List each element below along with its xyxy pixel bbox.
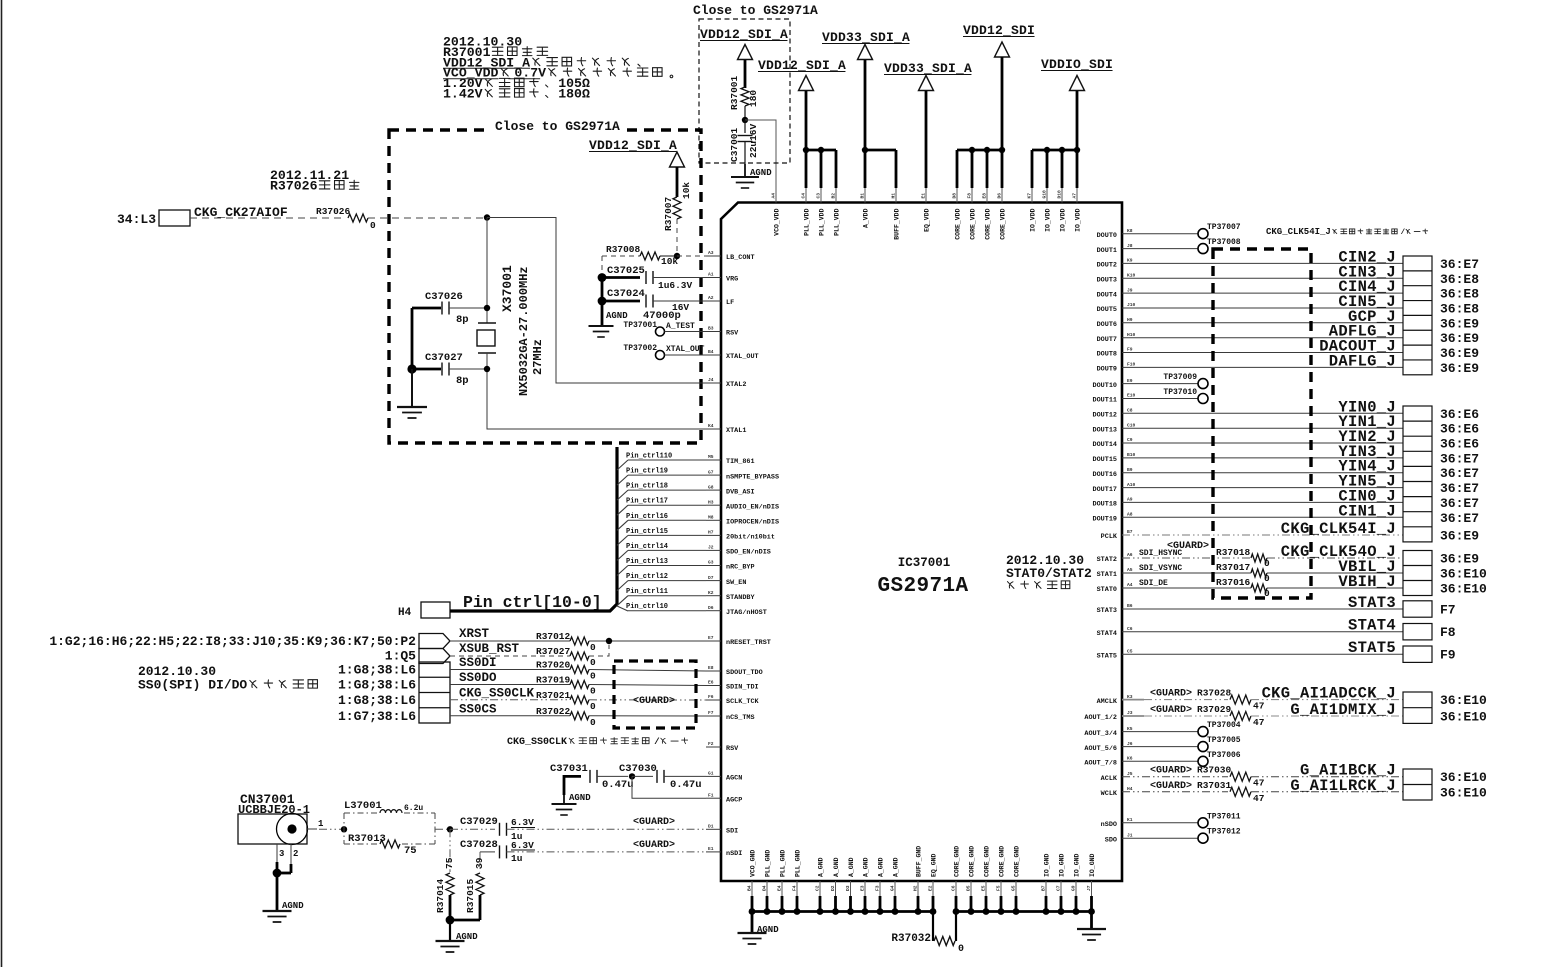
svg-text:C37031: C37031 xyxy=(550,763,588,775)
svg-text:STAT4: STAT4 xyxy=(1348,617,1396,635)
wire xtal top to XTAL2 xyxy=(487,218,706,384)
svg-text:DVB_ASI: DVB_ASI xyxy=(726,488,755,496)
svg-text:R37012: R37012 xyxy=(536,631,571,642)
svg-text:DOUT0: DOUT0 xyxy=(1097,232,1117,240)
page connector box audio i2s xyxy=(1403,769,1432,800)
svg-text:K10: K10 xyxy=(1127,273,1136,279)
svg-text:Close to GS2971A: Close to GS2971A xyxy=(693,3,818,18)
svg-text:CKG_CLK54I_J: CKG_CLK54I_J xyxy=(1266,227,1331,237)
svg-text:10k: 10k xyxy=(681,182,692,199)
svg-text:8p: 8p xyxy=(456,314,469,326)
svg-text:R37020: R37020 xyxy=(536,660,571,671)
wire xtal bottom to XTAL1 xyxy=(487,353,706,429)
svg-text:SS0DI: SS0DI xyxy=(459,656,497,670)
svg-text:nSMPTE_BYPASS: nSMPTE_BYPASS xyxy=(726,473,779,481)
svg-text:J8: J8 xyxy=(1127,243,1133,249)
svg-text:36:E10: 36:E10 xyxy=(1440,770,1487,785)
svg-text:<GUARD>: <GUARD> xyxy=(1150,705,1192,716)
svg-text:34:L3: 34:L3 xyxy=(117,212,156,227)
svg-text:36:E6: 36:E6 xyxy=(1440,407,1479,422)
svg-text:STAT1: STAT1 xyxy=(1097,571,1117,579)
wire CKG_SS0CLK xyxy=(450,699,570,701)
svg-text:B9: B9 xyxy=(1127,467,1133,473)
wire R37030 -> G_AI1BCK_J xyxy=(1251,776,1403,778)
capacitor C37027 8p xyxy=(407,364,416,373)
svg-text:36:E9: 36:E9 xyxy=(1440,346,1479,361)
svg-text:DOUT2: DOUT2 xyxy=(1097,262,1117,270)
test point TP37011 xyxy=(1122,822,1198,824)
resistor R37007 10k xyxy=(673,197,681,219)
svg-text:M5: M5 xyxy=(708,454,714,460)
svg-text:LF: LF xyxy=(726,299,734,307)
svg-text:SDI_VSYNC: SDI_VSYNC xyxy=(1139,564,1182,573)
svg-text:36:E10: 36:E10 xyxy=(1440,567,1487,582)
svg-text:0: 0 xyxy=(1264,558,1270,569)
svg-text:SDI_DE: SDI_DE xyxy=(1139,579,1168,588)
svg-text:DAFLG_J: DAFLG_J xyxy=(1329,352,1396,370)
svg-text:36:E10: 36:E10 xyxy=(1440,710,1487,725)
svg-text:C37027: C37027 xyxy=(425,352,463,364)
svg-text:A1: A1 xyxy=(708,272,714,278)
svg-text:DOUT10: DOUT10 xyxy=(1093,382,1117,390)
svg-text:DOUT7: DOUT7 xyxy=(1097,336,1117,344)
resistor R37022 0ohm xyxy=(570,712,589,720)
dashed box Close to GS2971A (crystal circuit) xyxy=(389,130,701,443)
wire Pin_ctrl16 xyxy=(617,520,628,530)
svg-text:C37030: C37030 xyxy=(619,763,657,775)
svg-text:PLL_GND: PLL_GND xyxy=(780,850,787,877)
test point TP37006 xyxy=(1122,760,1198,762)
wire nSDI guard xyxy=(507,851,707,853)
wire R37028 -> CKG_AI1ADCCK_J xyxy=(1251,699,1403,701)
svg-text:CKG_SS0CLK: CKG_SS0CLK xyxy=(507,737,567,748)
svg-text:BUFF_GND: BUFF_GND xyxy=(916,846,923,877)
test point TP37001 A_TEST xyxy=(656,327,665,336)
wire DOUT5 -> CIN5_J xyxy=(1122,307,1403,309)
wire WCLK (guard) xyxy=(1122,791,1228,793)
svg-text:J9: J9 xyxy=(1127,287,1133,293)
wire DOUT8 -> DACOUT_J xyxy=(1122,352,1403,354)
ground symbol at right of ground bus xyxy=(1090,912,1093,930)
svg-text:TIM_861: TIM_861 xyxy=(726,458,755,466)
svg-text:EQ_GND: EQ_GND xyxy=(931,853,938,877)
svg-text:B10: B10 xyxy=(1127,452,1136,458)
svg-text:PLL_VDD: PLL_VDD xyxy=(819,208,826,235)
page connector box YIN0..CKG_CLK54I xyxy=(1403,406,1432,542)
svg-text:XSUB_RST: XSUB_RST xyxy=(459,642,520,656)
svg-text:R37019: R37019 xyxy=(536,675,571,686)
svg-text:CORE_VDD: CORE_VDD xyxy=(970,208,977,239)
svg-text:R37026: R37026 xyxy=(316,206,351,217)
svg-text:SDIN_TDI: SDIN_TDI xyxy=(726,684,759,692)
svg-text:CKG_SS0CLK: CKG_SS0CLK xyxy=(459,686,535,700)
wire DOUT12 -> YIN0_J xyxy=(1122,412,1403,414)
svg-text:R37014: R37014 xyxy=(435,878,446,913)
svg-text:VDD12_SDI_A: VDD12_SDI_A xyxy=(758,58,846,73)
svg-text:<GUARD>: <GUARD> xyxy=(1150,766,1192,777)
svg-text:VDD12_SDI: VDD12_SDI xyxy=(963,23,1035,38)
analog ground bus wire xyxy=(752,910,933,913)
wire Pin_ctrl10 xyxy=(617,606,628,611)
svg-text:Close to GS2971A: Close to GS2971A xyxy=(495,119,620,134)
svg-text:H10: H10 xyxy=(1127,332,1136,338)
svg-text:H4: H4 xyxy=(398,607,412,619)
svg-text:M8: M8 xyxy=(708,515,714,521)
svg-text:X37001: X37001 xyxy=(500,265,515,312)
svg-text:STAT2: STAT2 xyxy=(1097,556,1117,564)
svg-text:K4: K4 xyxy=(708,423,714,429)
svg-text:VDD33_SDI_A: VDD33_SDI_A xyxy=(884,61,972,76)
svg-text:AGND: AGND xyxy=(282,901,304,911)
svg-text:E1: E1 xyxy=(708,846,714,852)
wire AMCLK (guard) xyxy=(1122,699,1144,701)
svg-text:<GUARD>: <GUARD> xyxy=(633,817,675,828)
svg-text:XRST: XRST xyxy=(459,627,490,641)
test point TP37004 xyxy=(1122,731,1198,733)
test point TP37010 xyxy=(1122,398,1198,400)
svg-text:RSV: RSV xyxy=(726,745,739,753)
svg-text:B7: B7 xyxy=(1127,529,1133,535)
svg-text:36:E6: 36:E6 xyxy=(1440,422,1479,437)
node XRST/R37027 junction xyxy=(606,638,612,644)
svg-text:A_GND: A_GND xyxy=(893,857,900,877)
svg-text:27MHz: 27MHz xyxy=(531,339,545,375)
svg-text:AOUT_3/4: AOUT_3/4 xyxy=(1084,730,1117,738)
svg-text:CKG_CLK54I_J: CKG_CLK54I_J xyxy=(1281,520,1396,538)
AGND below C37024 xyxy=(589,325,614,327)
wire Pin_ctrl12 xyxy=(617,581,628,591)
svg-text:36:E6: 36:E6 xyxy=(1440,437,1479,452)
crystal X37001 NX5032GA-27.000MHz xyxy=(478,322,496,324)
svg-text:DOUT18: DOUT18 xyxy=(1093,501,1117,509)
svg-text:C37001: C37001 xyxy=(729,127,740,162)
svg-text:nRESET_TRST: nRESET_TRST xyxy=(726,639,771,647)
svg-text:CORE_GND: CORE_GND xyxy=(1014,846,1021,877)
svg-text:Pin_ctrl110: Pin_ctrl110 xyxy=(626,453,672,461)
wire DOUT7 -> ADFLG_J xyxy=(1122,337,1403,339)
svg-text:A3: A3 xyxy=(708,250,714,256)
svg-text:A_GND: A_GND xyxy=(848,857,855,877)
svg-text:C37025: C37025 xyxy=(607,265,645,277)
wire VCO_VDD supply xyxy=(745,120,776,188)
svg-text:DOUT3: DOUT3 xyxy=(1097,277,1117,285)
svg-text:AOUT_7/8: AOUT_7/8 xyxy=(1084,760,1117,768)
svg-text:G_AI1DMIX_J: G_AI1DMIX_J xyxy=(1290,701,1396,719)
svg-text:47: 47 xyxy=(1253,778,1265,789)
svg-text:C9: C9 xyxy=(1127,437,1133,443)
svg-text:H9: H9 xyxy=(1127,317,1133,323)
wire STAT2 xyxy=(1122,557,1251,559)
resistor R37026 0ohm (not mounted) xyxy=(348,214,368,222)
svg-text:SDI: SDI xyxy=(726,828,738,836)
wire C37026-C37027 join xyxy=(411,308,414,369)
wire DOUT9 -> DAFLG_J xyxy=(1122,366,1403,368)
wire Pin_ctrl110 xyxy=(617,460,628,470)
svg-text:BUFF_VDD: BUFF_VDD xyxy=(894,208,901,239)
svg-text:TP37001: TP37001 xyxy=(623,321,657,330)
port box SS0 signals xyxy=(419,662,450,723)
resistor R37027 0ohm (dashed) xyxy=(570,652,589,660)
svg-text:WCLK: WCLK xyxy=(1101,790,1118,798)
resistor R37020 0ohm xyxy=(570,666,589,674)
svg-text:36:E9: 36:E9 xyxy=(1440,316,1479,331)
svg-text:F9: F9 xyxy=(1440,648,1456,663)
svg-text:VRG: VRG xyxy=(726,276,738,284)
svg-text:6.3V: 6.3V xyxy=(511,817,534,828)
page connector box STAT4 xyxy=(1403,624,1432,640)
svg-text:J1: J1 xyxy=(1127,832,1133,838)
svg-text:nSDO: nSDO xyxy=(1101,821,1117,829)
svg-text:J6: J6 xyxy=(1127,741,1133,747)
svg-text:D7: D7 xyxy=(708,575,714,581)
wire R37014/R37015 to gnd xyxy=(449,895,452,920)
svg-text:8p: 8p xyxy=(456,375,469,387)
svg-text:Pin_ctrl14: Pin_ctrl14 xyxy=(626,543,668,551)
svg-text:IO_VDD: IO_VDD xyxy=(1060,208,1067,232)
svg-text:36:E8: 36:E8 xyxy=(1440,302,1479,317)
svg-text:H4: H4 xyxy=(1127,786,1133,792)
wire R37017 -> VBIL_J xyxy=(1267,572,1403,574)
wire C37028 down xyxy=(479,852,481,872)
svg-text:ACLK: ACLK xyxy=(1101,775,1118,783)
AGND below R37014 xyxy=(449,920,451,941)
page connector box STAT3 xyxy=(1403,601,1432,617)
svg-text:R37015: R37015 xyxy=(465,878,476,913)
capacitor C37029 1u 6.3V xyxy=(450,828,495,830)
svg-text:H7: H7 xyxy=(708,530,714,536)
wire CKG_SS0CLK to IC xyxy=(589,699,706,701)
wire SS0DO to IC xyxy=(589,685,706,686)
wire DOUT6 -> GCP_J xyxy=(1122,322,1403,324)
svg-text:/: / xyxy=(654,736,660,747)
svg-text:EQ_VDD: EQ_VDD xyxy=(924,208,931,232)
svg-text:0: 0 xyxy=(1264,573,1270,584)
svg-text:IO_GND: IO_GND xyxy=(1074,853,1081,877)
svg-text:RSV: RSV xyxy=(726,330,739,338)
svg-text:Pin_ctrl13: Pin_ctrl13 xyxy=(626,558,668,566)
svg-text:B3: B3 xyxy=(708,326,714,332)
svg-text:TP37010: TP37010 xyxy=(1163,388,1197,397)
resistor R37013 75 xyxy=(380,840,400,848)
svg-text:XTAL1: XTAL1 xyxy=(726,427,746,435)
wire AGCP xyxy=(632,776,706,798)
svg-text:AGND: AGND xyxy=(606,311,628,321)
svg-text:180: 180 xyxy=(748,90,759,107)
wire R37007 to LB_CONT (dashed) xyxy=(676,219,678,256)
svg-text:R37007: R37007 xyxy=(663,196,674,231)
resistor R37032 0ohm between ground buses xyxy=(932,912,934,942)
test point TP37005 xyxy=(1122,746,1198,748)
svg-text:SDI_HSYNC: SDI_HSYNC xyxy=(1139,549,1182,558)
svg-text:G7: G7 xyxy=(708,469,714,475)
svg-text:A4: A4 xyxy=(1127,582,1133,588)
wire DOUT16 -> YIN4_J xyxy=(1122,472,1403,474)
test point TP37009 xyxy=(1122,383,1198,385)
wire A_VDD/BUFF_VDD rail xyxy=(865,149,896,152)
svg-text:47: 47 xyxy=(1253,793,1265,804)
svg-text:VDDIO_SDI: VDDIO_SDI xyxy=(1041,57,1113,72)
svg-text:10k: 10k xyxy=(661,256,678,267)
capacitor C37028 1u 6.3V xyxy=(480,851,495,853)
wire DOUT2 -> CIN2_J xyxy=(1122,262,1403,264)
svg-text:AMCLK: AMCLK xyxy=(1097,698,1118,706)
svg-text:DOUT14: DOUT14 xyxy=(1093,441,1117,449)
input port XSUB_RST xyxy=(419,649,450,664)
resistor R37001 180ohm xyxy=(741,87,749,106)
test point TP37012 xyxy=(1122,837,1198,839)
svg-text:SS0DO: SS0DO xyxy=(459,671,497,685)
svg-text:CORE_VDD: CORE_VDD xyxy=(985,208,992,239)
svg-text:R37017: R37017 xyxy=(1216,562,1251,573)
svg-text:R37026: R37026 xyxy=(270,179,318,194)
svg-text:C5: C5 xyxy=(1127,648,1133,654)
svg-text:LB_CONT: LB_CONT xyxy=(726,254,755,262)
svg-text:36:E7: 36:E7 xyxy=(1440,511,1479,526)
svg-text:DOUT13: DOUT13 xyxy=(1093,426,1117,434)
resistor R37017 0ohm xyxy=(1251,569,1267,577)
svg-text:A_GND: A_GND xyxy=(863,857,870,877)
svg-text:0.47u: 0.47u xyxy=(602,779,634,791)
svg-text:nRC_BYP: nRC_BYP xyxy=(726,564,755,572)
svg-text:DOUT4: DOUT4 xyxy=(1097,291,1117,299)
wire STAT1 xyxy=(1122,572,1251,574)
svg-text:A_GND: A_GND xyxy=(818,857,825,877)
svg-text:0: 0 xyxy=(590,671,596,682)
svg-text:20bit/n10bit: 20bit/n10bit xyxy=(726,534,775,542)
wire Pin_ctrl18 xyxy=(617,490,628,500)
svg-text:G8: G8 xyxy=(708,484,714,490)
page connector box audio adc xyxy=(1403,692,1432,723)
svg-text:36:E7: 36:E7 xyxy=(1440,466,1479,481)
wire PLL_VDD rail xyxy=(806,149,836,152)
wire R37014 column xyxy=(449,829,451,872)
svg-text:1.42V: 1.42V xyxy=(443,87,483,102)
wire R37018 -> CKG_CLK54O_J xyxy=(1267,557,1403,559)
svg-text:SW_EN: SW_EN xyxy=(726,579,746,587)
svg-text:K6: K6 xyxy=(1127,756,1133,762)
svg-text:36:E7: 36:E7 xyxy=(1440,257,1479,272)
svg-text:XTAL_OUT: XTAL_OUT xyxy=(666,345,705,354)
wire SS0CS to IC xyxy=(589,715,706,717)
svg-text:VDD12_SDI_A: VDD12_SDI_A xyxy=(589,138,677,153)
svg-text:C8: C8 xyxy=(1127,408,1133,414)
svg-text:DOUT1: DOUT1 xyxy=(1097,247,1117,255)
svg-text:DOUT6: DOUT6 xyxy=(1097,321,1117,329)
wire SS0DO xyxy=(450,684,570,686)
svg-text:K5: K5 xyxy=(1127,726,1133,732)
wire CORE_VDD rail xyxy=(957,149,1002,152)
svg-text:SDOUT_TDO: SDOUT_TDO xyxy=(726,669,763,677)
svg-text:STAT5: STAT5 xyxy=(1348,639,1396,657)
svg-text:DOUT15: DOUT15 xyxy=(1093,456,1117,464)
svg-text:NX5032GA-27.000MHz: NX5032GA-27.000MHz xyxy=(517,266,531,396)
svg-text:J4: J4 xyxy=(708,377,714,383)
wire Pin_ctrl15 xyxy=(617,535,628,545)
svg-text:R37008: R37008 xyxy=(606,244,641,255)
svg-text:36:E7: 36:E7 xyxy=(1440,496,1479,511)
capacitor C37026 8p xyxy=(412,307,441,310)
svg-text:VBIH_J: VBIH_J xyxy=(1338,573,1396,591)
svg-text:C37024: C37024 xyxy=(607,288,645,300)
svg-text:36:E9: 36:E9 xyxy=(1440,529,1479,544)
sheet border (left edge) xyxy=(1,0,3,967)
svg-text:/: / xyxy=(1401,229,1406,237)
svg-text:A_TEST: A_TEST xyxy=(666,322,695,331)
wire SS0DI xyxy=(450,669,570,671)
svg-text:36:E9: 36:E9 xyxy=(1440,552,1479,567)
wire STAT5 xyxy=(1122,653,1403,655)
resistor R37012 0ohm xyxy=(570,637,589,645)
svg-text:GS2971A: GS2971A xyxy=(877,575,968,598)
wire STAT4 xyxy=(1122,631,1403,633)
wire AOUT_1/2 (guard) xyxy=(1122,715,1144,717)
svg-text:R37032: R37032 xyxy=(891,933,931,945)
svg-text:47: 47 xyxy=(1253,717,1265,728)
svg-text:PLL_VDD: PLL_VDD xyxy=(804,208,811,235)
svg-text:F6: F6 xyxy=(708,694,714,700)
svg-text:36:E9: 36:E9 xyxy=(1440,331,1479,346)
svg-text:CORE_VDD: CORE_VDD xyxy=(1000,208,1007,239)
ground below C37027 xyxy=(411,369,413,407)
node R37001/C37001 junction xyxy=(742,117,748,123)
svg-text:E8: E8 xyxy=(708,665,714,671)
wire PCLK -> CKG_CLK54I_J (guard) xyxy=(1122,534,1403,536)
AGND ground symbol at left of ground bus xyxy=(751,912,754,934)
svg-text:Pin_ctrl19: Pin_ctrl19 xyxy=(626,468,668,476)
svg-text:22u16V: 22u16V xyxy=(748,123,759,158)
svg-text:VDD33_SDI_A: VDD33_SDI_A xyxy=(822,30,910,45)
svg-text:75: 75 xyxy=(404,845,417,857)
capacitor C37031 0.47u xyxy=(564,776,581,795)
svg-text:DOUT17: DOUT17 xyxy=(1093,486,1117,494)
svg-text:IO_GND: IO_GND xyxy=(1044,853,1051,877)
svg-text:STAT0/STAT2: STAT0/STAT2 xyxy=(1006,566,1092,581)
svg-text:Pin ctrl[10-0]: Pin ctrl[10-0] xyxy=(463,593,602,612)
svg-text:DOUT5: DOUT5 xyxy=(1097,306,1117,314)
svg-text:0: 0 xyxy=(590,642,596,653)
svg-text:AGND: AGND xyxy=(750,168,772,178)
svg-text:F10: F10 xyxy=(1127,362,1136,368)
svg-text:STANDBY: STANDBY xyxy=(726,594,755,602)
svg-text:STAT5: STAT5 xyxy=(1097,652,1117,660)
svg-text:F9: F9 xyxy=(1127,347,1133,353)
wire DOUT18 -> CIN0_J xyxy=(1122,501,1403,503)
svg-text:1:G8;38:L6: 1:G8;38:L6 xyxy=(338,678,416,693)
capacitor C37024 47000p 16V xyxy=(598,297,607,306)
svg-text:K8: K8 xyxy=(1127,228,1133,234)
wire Pin_ctrl14 xyxy=(617,550,628,560)
svg-text:A2: A2 xyxy=(708,295,714,301)
svg-text:TP37011: TP37011 xyxy=(1207,812,1241,821)
svg-text:36:E10: 36:E10 xyxy=(1440,785,1487,800)
svg-text:CKG_AI1ADCCK_J: CKG_AI1ADCCK_J xyxy=(1262,685,1396,703)
svg-text:IO_GND: IO_GND xyxy=(1089,853,1096,877)
svg-text:0: 0 xyxy=(590,701,596,712)
svg-text:E6: E6 xyxy=(708,680,714,686)
test point TP37008 xyxy=(1122,248,1198,250)
svg-text:F2: F2 xyxy=(708,741,714,747)
svg-text:A8: A8 xyxy=(1127,512,1133,518)
svg-text:STAT3: STAT3 xyxy=(1348,594,1396,612)
svg-text:1: 1 xyxy=(318,819,324,829)
svg-text:1:Q5: 1:Q5 xyxy=(385,649,416,664)
capacitor C37030 0.47u xyxy=(629,773,635,779)
capacitor C37001 22u 16V xyxy=(744,120,746,133)
svg-text:<GUARD>: <GUARD> xyxy=(1150,689,1192,700)
svg-text:36:E8: 36:E8 xyxy=(1440,287,1479,302)
svg-text:R37029: R37029 xyxy=(1197,704,1232,715)
wire to SDI coupling xyxy=(435,828,450,830)
